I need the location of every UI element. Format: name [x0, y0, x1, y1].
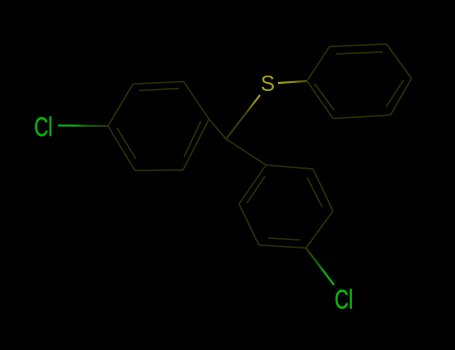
svg-text:Cl: Cl	[335, 284, 353, 314]
wire ring edge BL-L	[307, 81, 333, 119]
double bond inner R-BR	[184, 121, 201, 157]
wire ring edge BR-BL (bottom)	[135, 169, 183, 172]
bond Cl1-C (green fading to dark toward ring)	[58, 125, 108, 128]
wire ring edge TL-TR (top)	[133, 82, 184, 85]
double bond inner L-T	[247, 176, 265, 203]
right phenyl ring	[307, 44, 412, 119]
bond C-Cl2 (green brightening toward label)	[306, 248, 334, 285]
wire ring edge BL-L	[108, 126, 135, 171]
double bond inner top (TL-TR)	[139, 89, 179, 91]
wire ring edge BL-L	[239, 204, 259, 245]
svg-text:S: S	[261, 70, 275, 96]
wire ring edge TL-TR (top)	[330, 44, 387, 47]
svg-text:Cl: Cl	[34, 112, 52, 142]
bond S-phenyl (olive, horizontal)	[278, 81, 307, 83]
double bond inner V-BL	[268, 238, 300, 240]
wire ring edge V-BL	[259, 245, 306, 248]
bond S-CH (olive fading down-left)	[226, 95, 260, 139]
wire ring edge L-T	[239, 165, 266, 204]
wire ring edge L-TL	[307, 47, 330, 82]
double bond inner BL-L	[315, 84, 335, 111]
bond CH to bottom ring	[226, 139, 266, 165]
wire ring edge L-TL	[108, 84, 133, 126]
double bond inner TR-R	[307, 177, 322, 207]
wire ring edge R-BR	[183, 119, 209, 170]
left benzene ring (4-chlorophenyl)	[108, 82, 209, 171]
wire ring edge TR-R	[387, 44, 412, 79]
wire ring edge TR-R	[184, 82, 210, 120]
wire ring edge T-TR	[266, 165, 313, 169]
wire ring edge R-BR	[391, 79, 412, 116]
bond left ring to CH	[209, 119, 226, 139]
double bond inner BL-L	[117, 128, 136, 159]
wire ring edge TR-R	[313, 169, 333, 211]
bottom benzene ring (4-chlorophenyl)	[239, 165, 333, 248]
double bond inner top (TL-TR)	[336, 52, 383, 54]
wire ring edge BR-BL (bottom)	[333, 115, 391, 119]
wire ring edge R-V	[306, 211, 333, 248]
double bond inner R-BR	[386, 80, 404, 107]
